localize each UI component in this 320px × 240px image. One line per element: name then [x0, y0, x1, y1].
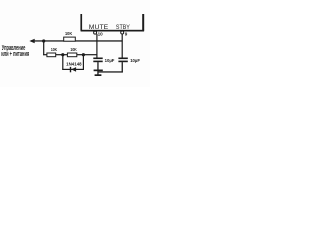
wire node A down: [43, 41, 44, 55]
wire C2 return to ground: [98, 71, 123, 72]
wire node B down: [62, 55, 63, 70]
svg-text:10: 10: [98, 31, 104, 36]
svg-text:10µF: 10µF: [105, 58, 115, 63]
node B junction dot: [61, 53, 64, 56]
pin 10 circle: [94, 31, 97, 34]
resistor R1 10K body: [47, 53, 56, 57]
ground stem: [97, 62, 98, 75]
wire lower row horizontal: [43, 54, 97, 55]
capacitor C1 bottom plate: [93, 61, 102, 63]
wire pin10 vertical to cap C1: [96, 34, 97, 58]
wire diode branch horizontal: [62, 69, 84, 70]
diode VD1 triangle: [71, 67, 76, 72]
svg-text:или + питания: или + питания: [1, 51, 29, 58]
wire main horizontal: [31, 40, 123, 41]
wire pin9 vertical to cap C2: [122, 34, 123, 58]
svg-text:9: 9: [125, 32, 128, 37]
svg-text:10K: 10K: [70, 47, 77, 52]
wire node C down: [83, 55, 84, 70]
node C junction dot: [82, 53, 85, 56]
svg-text:MUTE: MUTE: [89, 24, 109, 31]
wire C2 bottom lead: [122, 62, 123, 72]
capacitor C1 top plate: [93, 58, 102, 60]
svg-text:10K: 10K: [51, 47, 58, 52]
ground bar 2: [95, 74, 102, 76]
svg-text:1N4148: 1N4148: [66, 62, 82, 67]
svg-text:10µF: 10µF: [130, 58, 140, 63]
IC U1 right edge: [142, 14, 144, 31]
capacitor C2 top plate: [118, 58, 127, 60]
svg-text:10K: 10K: [65, 31, 73, 36]
resistor R3 10K body: [64, 37, 76, 41]
resistor R2 10K body: [67, 53, 76, 57]
diode VD1 cathode bar: [70, 67, 71, 72]
capacitor C2 bottom plate: [118, 61, 127, 63]
IC U1 bottom edge: [81, 30, 145, 32]
pin 9 circle: [121, 31, 124, 34]
IC U1 left edge: [80, 14, 82, 31]
ground bar 1: [94, 70, 103, 72]
svg-text:STBY: STBY: [116, 24, 130, 31]
arrow input: [29, 39, 34, 43]
node A junction dot: [42, 39, 45, 42]
